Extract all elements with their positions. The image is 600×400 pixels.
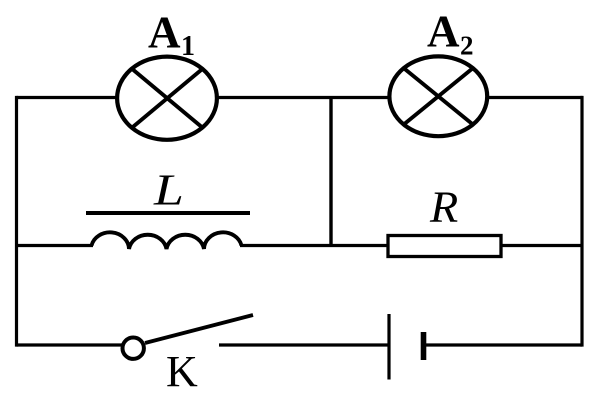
svg-text:R: R [429,182,458,231]
wire: top right segment [487,96,583,99]
wire: switch contact to battery [219,343,389,346]
lamp A1 [117,57,217,140]
switch K lever [145,315,253,343]
label A1 [148,8,195,63]
svg-text:K: K [166,347,198,396]
battery short plate [421,332,427,360]
wire: middle row center segment [240,244,388,247]
lamp A2 [389,56,487,136]
wire: top middle segment [217,96,389,99]
label A2 [427,7,474,61]
inductor L [92,232,242,249]
svg-text:1: 1 [181,31,195,62]
svg-text:A: A [427,7,460,57]
switch K pivot circle [123,338,144,359]
wire: battery to right edge [424,343,582,346]
battery long plate [387,314,390,380]
svg-text:2: 2 [460,31,474,61]
svg-text:A: A [148,8,181,58]
wire: bottom left segment [17,343,123,346]
resistor R [388,236,501,257]
wire: top left segment [17,96,118,99]
wire: middle row right segment [501,244,582,247]
wire: middle row left segment [17,244,94,247]
svg-text:L: L [153,165,184,214]
wire: left edge vertical [15,96,18,347]
wire: middle branch vertical [329,98,332,246]
label L underline [86,211,250,215]
wire: right edge vertical [580,96,583,347]
